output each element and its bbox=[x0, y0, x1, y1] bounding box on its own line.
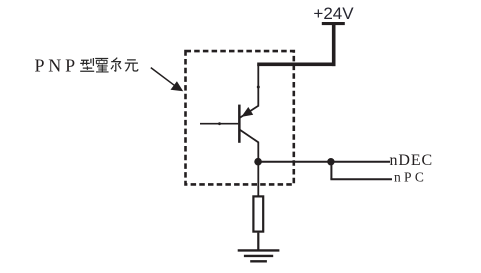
glyph 尔 bbox=[111, 58, 121, 72]
base bar bbox=[238, 105, 241, 143]
wire node A down to resistor R1 bbox=[257, 162, 259, 196]
svg-text:+24V: +24V bbox=[313, 4, 354, 23]
wire emitter to +24V rail bbox=[257, 64, 259, 106]
wire +24V vertical bbox=[332, 25, 336, 67]
emitter arrow (points into base: PNP) bbox=[241, 107, 253, 117]
power rail bar bbox=[322, 22, 345, 25]
node A junction dot bbox=[254, 158, 262, 166]
glyph 霍 bbox=[95, 58, 108, 72]
emitter diagonal bbox=[240, 106, 259, 118]
ground bbox=[238, 250, 280, 261]
wire resistor to ground bbox=[257, 233, 259, 251]
wire base lead bbox=[200, 123, 238, 125]
svg-text:PNP: PNP bbox=[35, 56, 79, 76]
wire to nPC bbox=[330, 178, 392, 180]
glyph 型 bbox=[80, 58, 94, 71]
pin dot on base wire bbox=[218, 122, 221, 125]
wire collector down to node A bbox=[257, 142, 259, 162]
glyph 元 bbox=[125, 60, 138, 71]
wire node B drop bbox=[330, 162, 332, 180]
resistor R1 bbox=[253, 196, 263, 231]
transistor Q1 (PNP) bbox=[238, 105, 259, 143]
arrow pointer to hall element bbox=[151, 68, 183, 92]
pin dot on emitter wire bbox=[257, 86, 260, 89]
node B junction dot bbox=[327, 158, 334, 165]
svg-text:nPC: nPC bbox=[394, 170, 427, 185]
svg-text:nDEC: nDEC bbox=[390, 152, 434, 169]
annotation label PNP type hall element bbox=[35, 56, 138, 76]
hall element U1 dashed box bbox=[186, 51, 294, 184]
collector diagonal bbox=[240, 130, 259, 143]
wire +24V horizontal feed bbox=[257, 63, 335, 67]
wire node A to nDEC bbox=[258, 161, 390, 163]
